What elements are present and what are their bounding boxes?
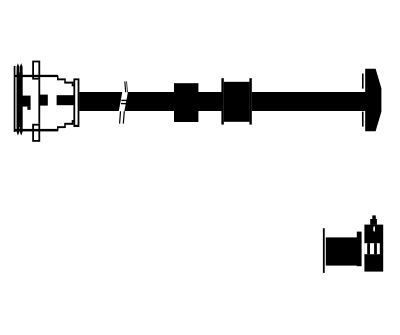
left connector: inner drive dash 3 xyxy=(57,95,74,105)
end cap: top hook flange xyxy=(362,74,364,89)
lower fitting: groove divider 2 xyxy=(374,243,377,254)
left connector: flange solid mid section xyxy=(17,73,23,128)
lower fitting: top slit (white) xyxy=(373,226,375,232)
left connector: body top line xyxy=(14,75,58,77)
end cap: bottom hook flange xyxy=(362,112,364,127)
lower fitting: nipple stub xyxy=(372,215,376,219)
left connector: flange crimp bar 2 (pointed tips) xyxy=(20,63,23,135)
left connector: bottom tab (outlined box) xyxy=(32,124,40,142)
lower fitting: barrel body xyxy=(326,237,357,265)
lower fitting: groove divider 1 xyxy=(367,243,370,254)
cable break symbol: white slanted band xyxy=(119,92,128,112)
cable break symbol: lower tick lines xyxy=(119,111,121,123)
cable break symbol: inner black dashes xyxy=(121,100,126,101)
lower fitting: nipple base xyxy=(370,219,377,225)
end cap: bell body xyxy=(365,69,381,131)
ferrule block 2: body xyxy=(224,82,250,122)
left connector: inner drive dash 2 xyxy=(39,95,47,106)
left connector: tall vertical rib between tabs xyxy=(38,80,40,124)
left connector: top tab (outlined box) xyxy=(32,61,40,80)
lower fitting: flange thin line xyxy=(323,228,325,273)
ferrule block 1 xyxy=(174,83,198,122)
cable shaft: right section (block 2 to end cap) xyxy=(252,92,366,111)
left connector: cone taper bottom staircase xyxy=(57,126,65,128)
left connector: flange crimp bar 1 (pointed tips) xyxy=(17,63,20,135)
left connector: body bottom line xyxy=(14,129,58,132)
ferrule block 2: right pin line xyxy=(249,78,251,124)
left connector: flange thin outer line xyxy=(14,66,16,132)
cable shaft: left section (ring to block 1) xyxy=(79,92,174,111)
ferrule block 2: left pin line xyxy=(221,78,223,124)
lower fitting: collar ring xyxy=(357,232,362,267)
cable shaft: middle section (block 1 to block 2) xyxy=(198,92,222,111)
cable break symbol: upper tick lines xyxy=(124,81,126,92)
lower fitting: nut groove white band xyxy=(364,243,379,254)
left connector: ferrule ring (outlined) xyxy=(73,78,79,127)
lower fitting: nut block xyxy=(364,225,383,272)
left connector: cone taper top staircase xyxy=(57,78,65,80)
left connector: inner drive dash 1 (with foot) xyxy=(22,96,30,107)
